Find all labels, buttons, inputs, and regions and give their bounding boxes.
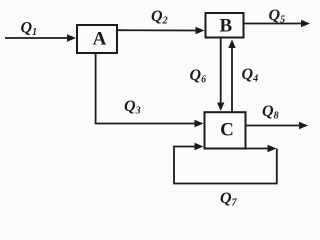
arrowhead Q3 into C left	[195, 120, 204, 127]
arrowhead Q6 into C top	[217, 103, 224, 112]
svg-text:B: B	[219, 15, 232, 36]
wire A to B (Q2)	[118, 29, 197, 31]
wire C up to B (Q4)	[231, 47, 233, 111]
arrowhead Q4 into B bottom	[228, 40, 235, 49]
flow arrow Q5 out of B	[245, 23, 302, 25]
arrowhead Q2 into B	[196, 27, 205, 34]
svg-text:Q4: Q4	[242, 66, 259, 85]
wire B down to C (Q6)	[220, 39, 222, 104]
wire A down then right to C (Q3)	[96, 54, 196, 124]
arrowhead Q1	[67, 34, 76, 41]
arrowhead Q8	[299, 122, 308, 129]
block A	[77, 25, 117, 53]
svg-text:Q2: Q2	[151, 8, 168, 27]
svg-text:C: C	[220, 120, 234, 141]
recycle wire Q7: right side down, bottom, left side up	[174, 147, 277, 184]
svg-text:Q5: Q5	[269, 7, 286, 26]
block B	[206, 13, 244, 38]
arrowhead recycle return into C left	[195, 143, 204, 150]
arrowhead Q5	[301, 20, 310, 27]
svg-text:Q3: Q3	[124, 98, 141, 117]
recycle wire Q7: exit from C bottom-right going right	[247, 148, 269, 150]
flow arrow Q1 into A	[5, 37, 69, 39]
flow arrow Q8 out of C	[247, 125, 300, 127]
svg-text:A: A	[93, 29, 107, 50]
svg-text:Q7: Q7	[220, 190, 238, 209]
block C	[205, 112, 246, 148]
svg-text:Q8: Q8	[262, 103, 279, 122]
svg-text:Q1: Q1	[21, 20, 38, 39]
arrowhead on recycle exit	[268, 145, 277, 152]
svg-text:Q6: Q6	[190, 67, 207, 86]
